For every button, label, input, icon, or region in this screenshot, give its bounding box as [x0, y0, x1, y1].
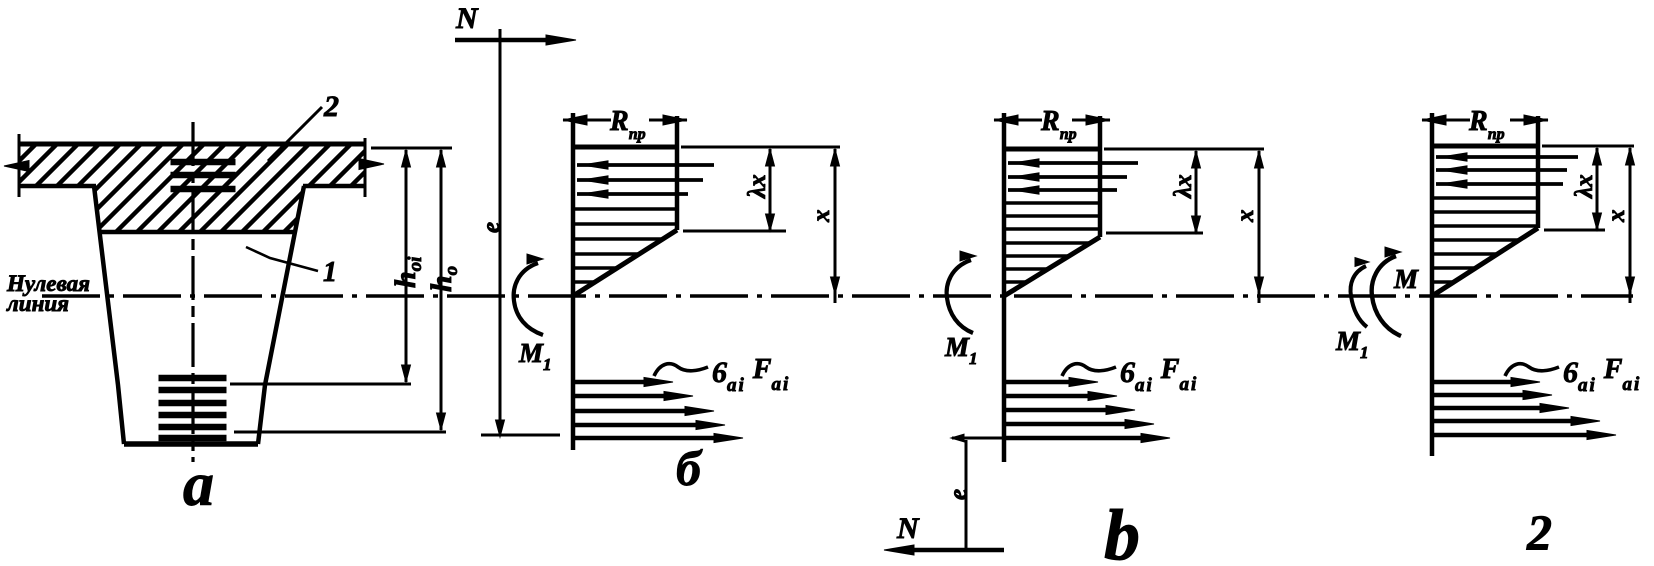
eccentricity e line below (diagram v)	[945, 434, 1009, 550]
dimension h_o	[425, 150, 462, 430]
svg-text:линия: линия	[6, 291, 69, 316]
svg-text:x: x	[808, 210, 835, 224]
diagram g: tension steel force arrows	[1433, 377, 1616, 439]
compression zone bottom boundary	[100, 230, 295, 235]
svg-text:6aiFai: 6aiFai	[712, 354, 790, 396]
diagram b: sigma_ai F_ai label with leader	[654, 354, 790, 396]
diagram v: lambda-x bottom tick	[1106, 232, 1203, 235]
svg-text:2: 2	[323, 90, 339, 123]
svg-text:M1: M1	[944, 332, 978, 368]
diagram v: x dimension	[1232, 151, 1264, 303]
diagram v: main axis	[1002, 113, 1007, 462]
diagram v: sigma_ai F_ai label with leader	[1062, 354, 1198, 396]
svg-text:M: M	[1393, 264, 1419, 294]
svg-text:N: N	[896, 512, 920, 545]
diagram v: stress block diagonal	[1004, 237, 1100, 296]
diagram g: stress block right edge	[1536, 116, 1541, 228]
svg-text:1: 1	[323, 257, 337, 288]
compression zone hatching (45 deg)	[0, 135, 465, 240]
force N at top with arrow	[455, 2, 576, 45]
diagram v: stress block top edge	[1004, 147, 1100, 152]
diagram b: concrete stress arrows	[577, 161, 714, 198]
svg-text:a: a	[183, 451, 214, 519]
diagram g: main axis	[1430, 113, 1435, 456]
web outline	[94, 186, 304, 444]
diagram b: stress block hatching	[575, 209, 677, 282]
diagram b: x dimension	[808, 149, 840, 303]
svg-text:6aiFai: 6aiFai	[1563, 354, 1641, 396]
diagram b: stress block right edge	[675, 116, 680, 230]
section a vertical centerline	[191, 122, 194, 462]
svg-text:Rпр: Rпр	[1468, 106, 1505, 143]
svg-text:λx: λx	[744, 174, 771, 199]
moment M1 arc (diagram g, outer small)	[1335, 258, 1369, 363]
dimension h_oi	[389, 150, 426, 382]
diagram g: stress block hatching	[1434, 198, 1538, 282]
T-section flange outline	[19, 134, 365, 197]
diagram b: R_pr dimension	[563, 106, 687, 143]
svg-text:Rпр: Rпр	[1040, 106, 1077, 143]
diagram g: lambda-x top tick	[1542, 145, 1634, 148]
Nulevaya liniya text	[6, 271, 90, 316]
diagram b: lambda-x top tick	[681, 146, 840, 149]
svg-text:λx: λx	[1170, 174, 1197, 199]
svg-text:6aiFai: 6aiFai	[1120, 354, 1198, 396]
svg-text:ho: ho	[425, 266, 462, 292]
svg-text:б: б	[676, 440, 703, 496]
diagram v: R_pr dimension	[994, 106, 1110, 143]
svg-text:hoi: hoi	[389, 256, 426, 288]
svg-text:M1: M1	[518, 338, 552, 374]
diagram b: stress block diagonal	[573, 230, 677, 296]
diagram g: R_pr dimension	[1422, 106, 1548, 143]
diagram v: lambda-x dimension	[1170, 151, 1201, 233]
svg-text:x: x	[1232, 210, 1259, 224]
diagram g: sigma_ai F_ai label with leader	[1505, 354, 1641, 396]
svg-text:e: e	[945, 489, 972, 500]
svg-text:N: N	[455, 2, 479, 35]
svg-text:2: 2	[1526, 504, 1552, 560]
svg-text:e: e	[478, 222, 505, 233]
leader line from upper rebar layer	[230, 383, 411, 386]
diagram g: lambda-x dimension	[1571, 148, 1602, 230]
moment M1 arc (diagram b)	[514, 254, 552, 374]
moment M1 arc (diagram v)	[944, 251, 978, 368]
label 2 with leader	[268, 90, 339, 161]
diagram b: lambda-x bottom tick	[683, 230, 786, 233]
diagram v: stress block right edge	[1098, 116, 1103, 237]
eccentricity e line (diagram b)	[478, 29, 560, 437]
force N at bottom with arrow (diagram v)	[884, 512, 1004, 555]
diagram v: stress block hatching	[1006, 203, 1100, 282]
diagram b: main axis	[571, 113, 576, 450]
leader line from bottom rebar layer	[234, 431, 446, 434]
diagram g: lambda-x bottom tick	[1544, 229, 1605, 232]
diagram v: lambda-x top tick	[1104, 148, 1264, 151]
tension reinforcement bars	[159, 375, 226, 441]
dimension top tick	[371, 147, 452, 150]
diagram g: stress block diagonal	[1432, 228, 1538, 296]
diagram g: x dimension	[1603, 148, 1635, 303]
diagram v: tension steel force arrows	[1005, 377, 1170, 442]
svg-text:Rпр: Rпр	[609, 106, 646, 143]
diagram v: concrete stress arrows	[1008, 159, 1138, 194]
diagram g: stress block top edge	[1432, 144, 1538, 149]
svg-text:x: x	[1603, 210, 1630, 224]
compression reinforcement bars	[171, 159, 235, 192]
flange left cut arrow	[4, 161, 29, 172]
svg-text:λx: λx	[1571, 174, 1598, 199]
zero line (neutral axis, dash-dot across figure)	[42, 294, 1633, 298]
diagram b: tension steel force arrows	[574, 377, 743, 442]
label 1 with leader	[246, 247, 337, 288]
diagram b: stress block top edge	[573, 145, 677, 150]
svg-text:b: b	[1104, 495, 1140, 566]
svg-text:M1: M1	[1335, 326, 1369, 362]
diagram b: lambda-x dimension	[744, 149, 775, 231]
flange right cut arrow	[359, 159, 384, 170]
moment M arc (diagram g, inner large)	[1372, 247, 1419, 336]
diagram g: concrete stress arrows	[1436, 153, 1578, 188]
